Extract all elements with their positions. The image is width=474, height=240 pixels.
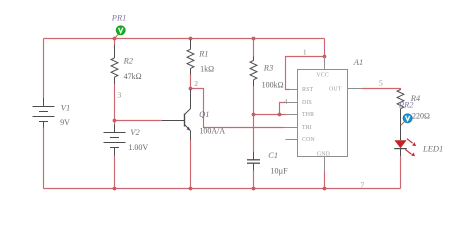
- svg-text:4: 4: [284, 99, 288, 106]
- node ground C1: [252, 187, 256, 191]
- svg-text:GND: GND: [317, 151, 330, 157]
- svg-text:1kΩ: 1kΩ: [200, 64, 214, 73]
- node VCC junction: [323, 55, 327, 59]
- wire R2 top: [114, 39, 116, 47]
- resistor R4: [397, 90, 404, 141]
- node 4 junction R3 bottom: [252, 113, 256, 117]
- wire RST link: [286, 57, 325, 90]
- svg-text:1: 1: [303, 47, 307, 56]
- capacitor C1: [247, 152, 260, 170]
- wire LED bottom: [400, 156, 402, 188]
- svg-text:V2: V2: [130, 127, 140, 137]
- node ground IC: [323, 187, 327, 191]
- svg-text:R3: R3: [263, 62, 273, 72]
- svg-text:3: 3: [118, 90, 122, 99]
- op-amp timer A1 555 box: [298, 70, 348, 157]
- wire R3 top: [253, 39, 255, 58]
- wire R1 bottom: [190, 74, 192, 89]
- node 4 junction DIS riser: [278, 113, 282, 117]
- svg-text:DIS: DIS: [302, 100, 312, 106]
- LED LED1: [394, 139, 416, 157]
- svg-text:OUT: OUT: [329, 86, 342, 92]
- resistor R3: [250, 57, 257, 87]
- svg-text:10µF: 10µF: [271, 167, 289, 176]
- svg-text:V1: V1: [61, 103, 70, 113]
- svg-text:TRI: TRI: [302, 125, 312, 131]
- wire node 3 to Q1 base: [115, 120, 163, 122]
- svg-text:C1: C1: [268, 150, 278, 160]
- resistor R2: [111, 45, 118, 84]
- wire V2 bottom: [114, 156, 116, 189]
- svg-text:R1: R1: [198, 49, 208, 59]
- svg-text:PR2: PR2: [398, 99, 414, 109]
- svg-text:220Ω: 220Ω: [412, 111, 430, 120]
- wire V1 bottom: [43, 128, 45, 189]
- probe PR2: [401, 114, 412, 126]
- wire Q1 emitter down: [190, 139, 192, 189]
- pin VCC stub: [324, 57, 326, 70]
- node R3 top junction: [252, 37, 256, 41]
- pin THR stub: [286, 114, 298, 116]
- svg-text:VCC: VCC: [316, 73, 329, 79]
- svg-text:2: 2: [194, 79, 198, 88]
- wire top rail: [44, 38, 325, 40]
- node R1 top junction: [189, 37, 193, 41]
- node ground V2: [113, 187, 117, 191]
- svg-text:A1: A1: [353, 57, 363, 67]
- wire C1 bottom: [253, 170, 255, 189]
- node 2 junction: [189, 87, 193, 91]
- pin DIS stub: [286, 102, 298, 104]
- svg-text:LED1: LED1: [422, 144, 443, 154]
- pin CON stub: [286, 139, 298, 141]
- svg-text:1.00V: 1.00V: [128, 143, 148, 152]
- battery V1: [33, 98, 55, 128]
- wire IC GND down: [324, 172, 326, 189]
- wire DIS riser: [280, 103, 286, 115]
- svg-text:RST: RST: [302, 87, 313, 93]
- svg-text:47kΩ: 47kΩ: [124, 72, 142, 81]
- pin OUT stub: [348, 88, 363, 90]
- probe PR1: [115, 26, 125, 38]
- svg-text:R2: R2: [123, 56, 134, 66]
- pin TRI stub: [284, 127, 298, 129]
- svg-text:100kΩ: 100kΩ: [262, 80, 284, 89]
- wire node 2 to TRI: [191, 89, 284, 128]
- wire C1 top: [253, 115, 255, 153]
- wire R3 bottom: [253, 86, 255, 115]
- wire R2 bottom to node 3: [114, 83, 116, 121]
- transistor Q1: [162, 90, 191, 140]
- svg-text:CON: CON: [302, 137, 315, 143]
- pin RST stub: [290, 89, 298, 91]
- svg-text:9V: 9V: [60, 118, 70, 127]
- wire node 3 to V2: [114, 121, 116, 125]
- node 3 junction: [113, 119, 117, 123]
- battery V2: [104, 125, 126, 156]
- wire VCC drop: [324, 39, 326, 57]
- svg-text:7: 7: [361, 180, 365, 189]
- node ground Q1: [189, 187, 193, 191]
- svg-text:Q1: Q1: [199, 109, 209, 119]
- resistor R1: [187, 40, 194, 75]
- node PR1 junction: [113, 37, 117, 41]
- svg-text:PR1: PR1: [111, 12, 127, 22]
- svg-text:100A/A: 100A/A: [199, 126, 225, 135]
- pin GND stub: [324, 157, 326, 172]
- wire V1 top: [43, 39, 45, 99]
- wire OUT to R4: [362, 89, 401, 91]
- svg-text:THR: THR: [302, 112, 314, 118]
- svg-text:5: 5: [379, 79, 383, 88]
- wire bottom rail: [44, 188, 401, 190]
- wire THR: [254, 114, 286, 116]
